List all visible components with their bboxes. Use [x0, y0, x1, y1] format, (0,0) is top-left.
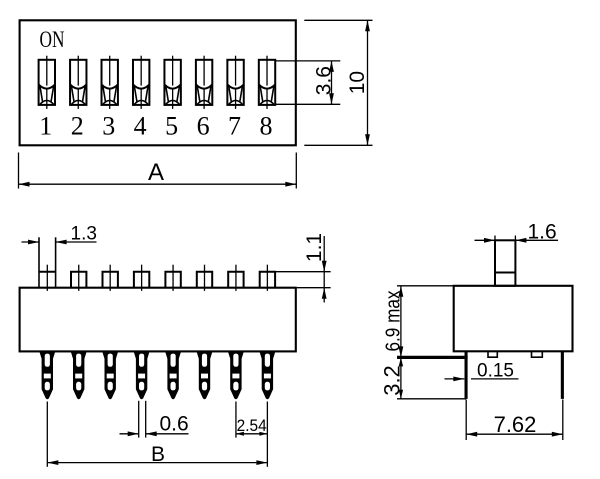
- svg-text:2: 2: [71, 112, 84, 141]
- svg-text:3.2: 3.2: [380, 365, 405, 396]
- dimension 0.6 extension lines: [138, 401, 140, 438]
- side view actuator: [495, 240, 515, 285]
- pin 2 (front view): [71, 351, 87, 399]
- dimension B extension line: [46, 402, 48, 467]
- svg-text:5: 5: [165, 112, 178, 141]
- svg-text:3: 3: [102, 112, 115, 141]
- svg-text:0.15: 0.15: [477, 361, 514, 382]
- actuator tab 7 (front view): [228, 265, 243, 291]
- leader arrow 0.15: [445, 378, 465, 380]
- dimension 2.54 line with arrows: [236, 433, 267, 435]
- seating plane line (thick): [397, 356, 468, 359]
- dimension 7.62 line with arrows: [466, 433, 563, 435]
- switch 2 actuator (top view): [70, 56, 86, 109]
- pin 3 (front view): [102, 351, 118, 399]
- pin 4 (front view): [134, 351, 150, 399]
- svg-text:1.3: 1.3: [71, 224, 97, 245]
- dimension 0.15 underline: [471, 378, 519, 380]
- side view left pin: [465, 351, 468, 399]
- dimension 7.62 extension lines: [465, 400, 467, 441]
- dimension 1.1 line with outside arrows: [323, 236, 325, 303]
- dimension A extension lines: [18, 153, 20, 189]
- actuator tab 1 (front view): [39, 237, 56, 291]
- svg-text:10: 10: [346, 71, 369, 94]
- dimension 1.6 extension stubs: [494, 236, 496, 241]
- svg-text:4: 4: [134, 112, 147, 141]
- dimension 1.6 line with outside arrows: [475, 239, 496, 241]
- side view body outline: [454, 286, 573, 352]
- dimension 1.3 line with outside arrows: [22, 241, 40, 243]
- dimension 2.54 extension lines: [235, 402, 237, 438]
- svg-text:3.6: 3.6: [313, 66, 336, 95]
- side view standoff bump right: [532, 351, 543, 357]
- switch 8 actuator (top view): [259, 56, 275, 109]
- pin 8 (front view): [259, 351, 275, 399]
- dimension 3.2 line with arrows: [400, 357, 402, 398]
- svg-text:2.54: 2.54: [237, 416, 267, 435]
- dimension 6.9 max line with arrows: [400, 286, 402, 358]
- switch 5 actuator (top view): [164, 56, 180, 109]
- actuator tab 3 (front view): [103, 265, 118, 291]
- svg-text:A: A: [148, 159, 164, 186]
- actuator tab 5 (front view): [165, 265, 180, 291]
- switch 7 actuator (top view): [227, 56, 243, 109]
- svg-text:6: 6: [197, 112, 210, 141]
- svg-text:B: B: [151, 443, 165, 466]
- switch 3 actuator (top view): [102, 56, 118, 109]
- switch 4 actuator (top view): [133, 56, 149, 109]
- svg-text:1: 1: [39, 112, 52, 141]
- svg-text:1.1: 1.1: [303, 233, 326, 262]
- dimension A line with arrows: [19, 183, 297, 185]
- pin 5 (front view): [165, 351, 181, 399]
- switch 6 actuator (top view): [196, 56, 212, 109]
- side view standoff bump left: [488, 351, 497, 357]
- svg-text:6.9 max: 6.9 max: [383, 291, 405, 352]
- pin bottom reference line: [397, 398, 466, 400]
- svg-text:ON: ON: [40, 27, 65, 52]
- svg-text:1.6: 1.6: [528, 220, 557, 243]
- svg-text:7.62: 7.62: [494, 412, 537, 437]
- front view body outline: [20, 288, 296, 352]
- dimension 1.1 extension lines: [275, 271, 330, 273]
- dimension 6.9 max extension line: [397, 285, 453, 287]
- pin 1 (front view): [39, 351, 55, 399]
- dimension B line with arrows: [47, 462, 267, 464]
- svg-text:7: 7: [228, 112, 241, 141]
- pin 6 (front view): [196, 351, 212, 399]
- side view right pin: [561, 351, 564, 399]
- dimension 10 extension lines: [304, 19, 372, 21]
- svg-text:8: 8: [260, 112, 273, 141]
- pin 7 (front view): [228, 351, 244, 399]
- actuator tab 8 (front view): [260, 265, 275, 291]
- actuator tab 4 (front view): [134, 265, 149, 291]
- actuator tab 6 (front view): [197, 265, 212, 291]
- dimension 0.6 line with outside arrows: [120, 433, 139, 435]
- dimension 10 line with arrows: [367, 20, 369, 145]
- svg-text:0.6: 0.6: [160, 413, 189, 436]
- actuator tab 2 (front view): [71, 265, 86, 291]
- top view body outline: [20, 20, 296, 145]
- dimension 3.6 extension lines: [276, 60, 340, 62]
- dimension 3.6 line with arrows: [331, 61, 333, 104]
- switch 1 actuator (top view): [39, 56, 55, 109]
